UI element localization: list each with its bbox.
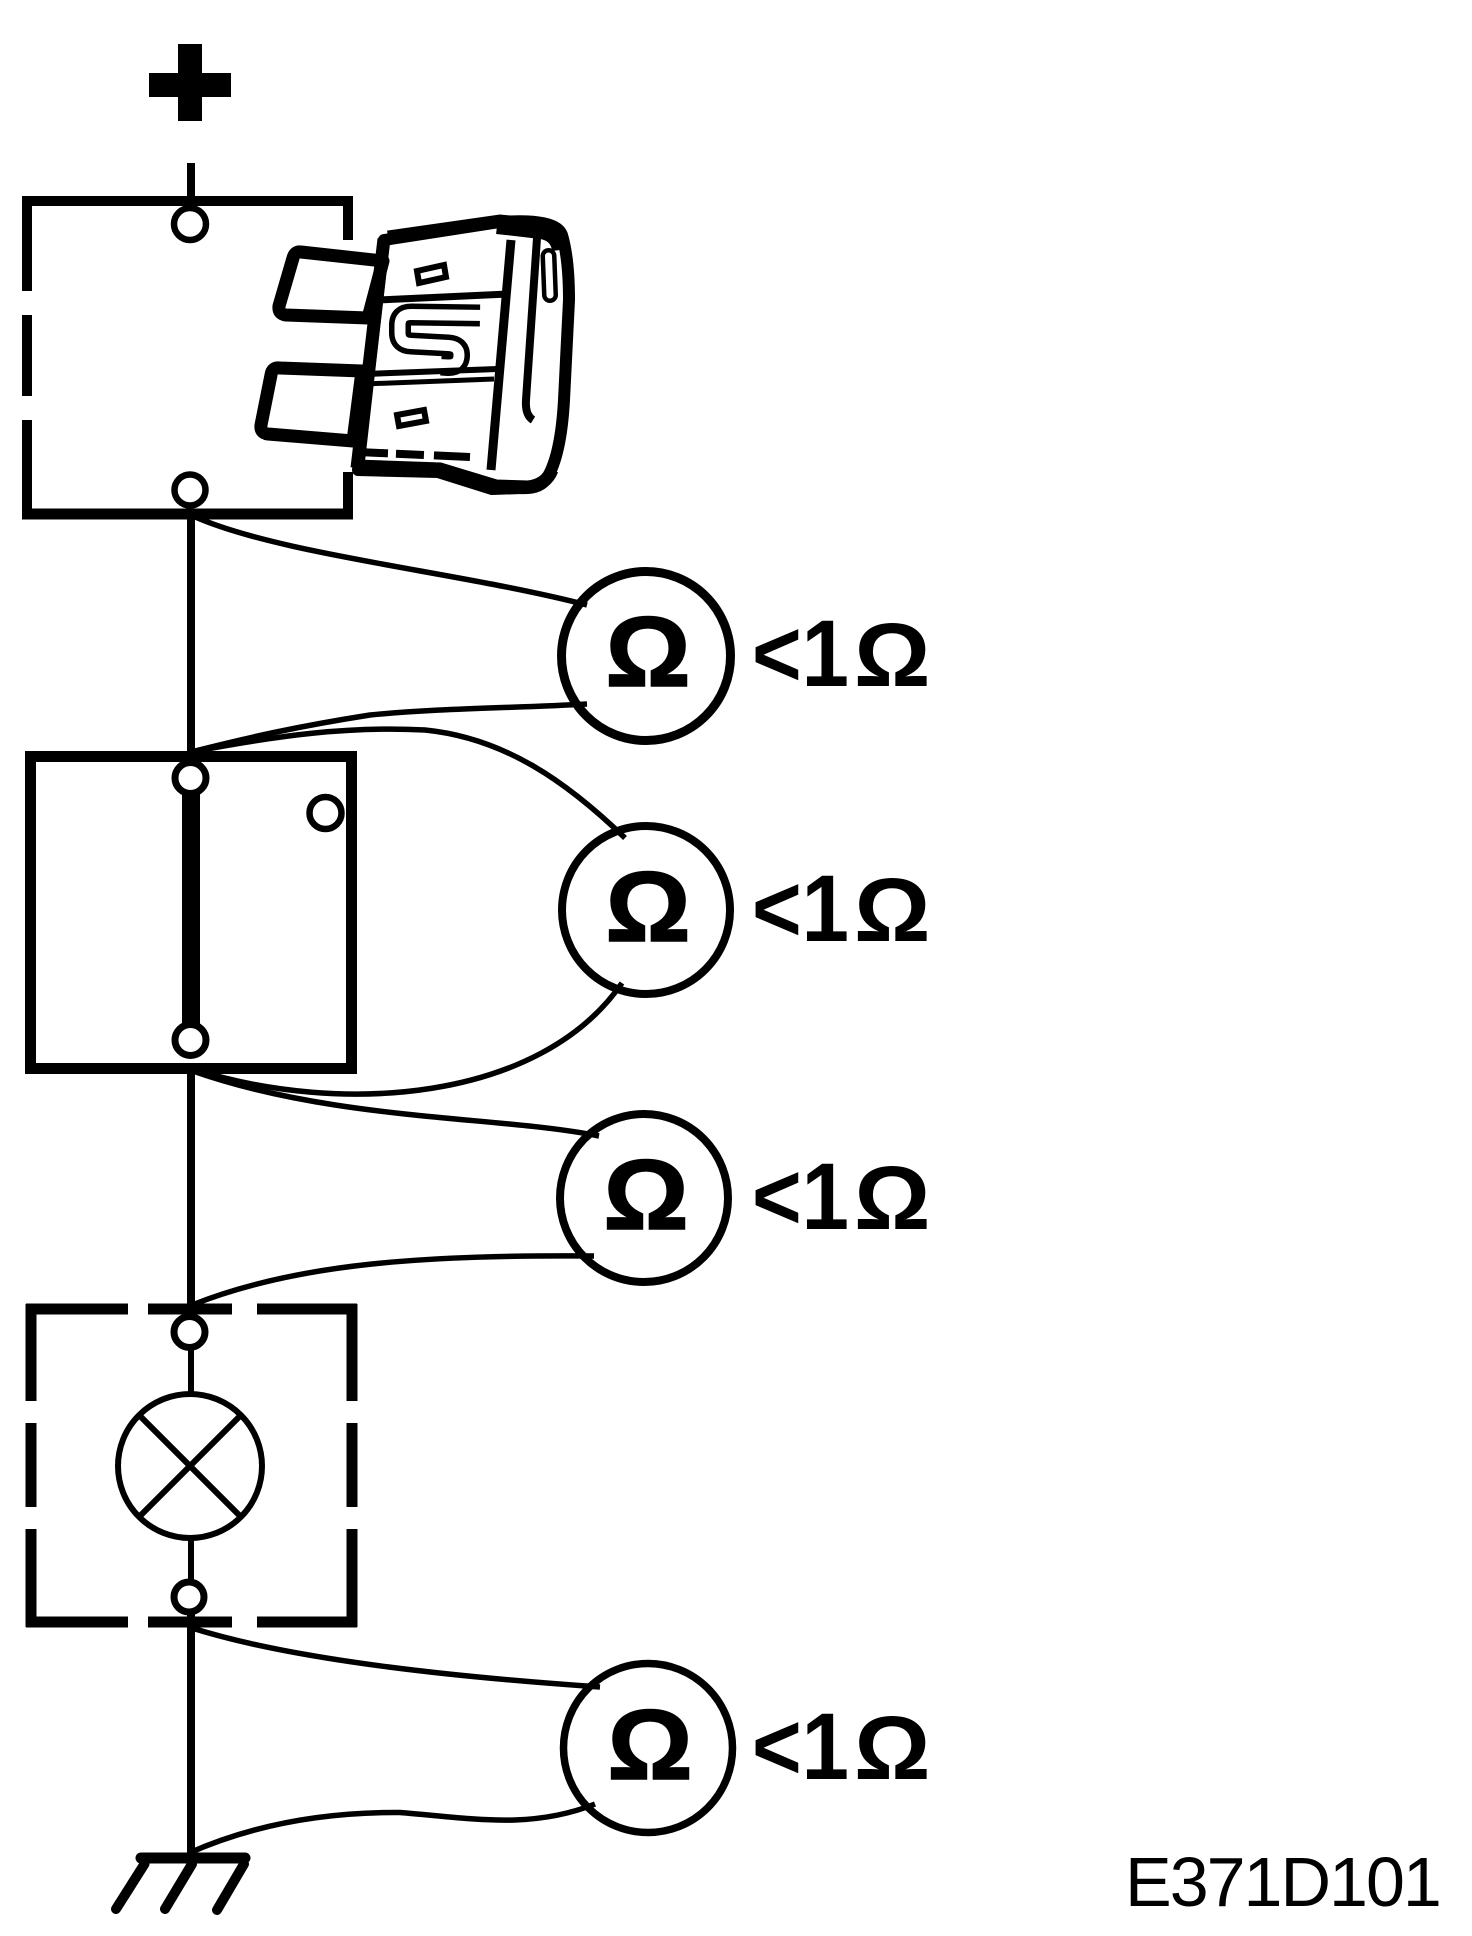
svg-text:Ω: Ω: [605, 851, 690, 962]
ohmmeter 1 dial circle: [562, 572, 731, 741]
relay contact bar: [182, 790, 200, 1030]
fuse body left edge: [357, 239, 384, 468]
svg-text:Ω: Ω: [854, 859, 930, 960]
wire bulb to bottom terminal: [188, 1539, 194, 1587]
wire ohmmeter3 bottom lead to lamp-top: [192, 1256, 594, 1305]
svg-text:Ω: Ω: [605, 596, 690, 707]
fuse blade (upper): [279, 252, 383, 318]
svg-text:<1: <1: [752, 1144, 849, 1250]
svg-text:<1: <1: [752, 856, 849, 962]
ohmmeter 4 dial circle: [564, 1664, 733, 1833]
wire terminal to bulb: [188, 1346, 194, 1398]
lamp terminal (bottom): [174, 1582, 204, 1612]
wire through fuse box to relay: [187, 519, 195, 754]
fuse box (dashed outline): [22, 196, 353, 519]
fuse element (S-shape): [400, 315, 480, 366]
wire relay-top to ohmmeter2 top lead: [191, 729, 625, 838]
battery positive terminal +: [149, 44, 231, 121]
fuse side slot: [549, 256, 551, 295]
relay pin circle: [310, 797, 342, 829]
lamp cross line 1: [139, 1415, 242, 1518]
wire relay-bottom to ohmmeter3 top lead: [193, 1071, 599, 1136]
lamp box (dashed outline): [26, 1304, 357, 1627]
wire ohmmeter4 bottom lead to ground: [189, 1804, 595, 1853]
fuse top cap white notch: [490, 241, 509, 253]
ohmmeter 2 glyph: [605, 851, 690, 962]
fuse divider line 3: [364, 379, 494, 384]
fuse divider line 2: [366, 369, 497, 374]
lamp terminal (top): [174, 1317, 205, 1348]
fuse body outline: [358, 221, 569, 489]
svg-text:<1: <1: [752, 601, 849, 707]
svg-text:Ω: Ω: [854, 1697, 930, 1798]
automotive blade fuse illustration: [261, 221, 569, 489]
fuse amperage stamp (upper): [417, 265, 446, 283]
wire lamp box to ground: [187, 1612, 195, 1858]
fuse amperage stamp (lower): [397, 410, 426, 426]
fuse side face line 2: [526, 238, 537, 420]
wire lamp-bottom to ohmmeter4 top lead: [192, 1628, 600, 1687]
wire fuse-bottom to ohmmeter1 top lead: [193, 516, 587, 605]
svg-text:Ω: Ω: [854, 604, 930, 705]
lamp bulb circle: [118, 1394, 262, 1538]
ohmmeter 3 glyph: [603, 1139, 688, 1250]
fuse white mask over box edge: [336, 240, 362, 472]
lamp cross line 2: [139, 1415, 242, 1518]
svg-text:Ω: Ω: [607, 1689, 692, 1800]
svg-text:<1: <1: [752, 1694, 849, 1800]
svg-text:E371D101: E371D101: [1125, 1843, 1440, 1921]
relay box: [31, 757, 352, 1069]
fuse divider line 1: [379, 294, 508, 300]
fuse top cap band: [388, 221, 548, 237]
fuse bottom face line with dashes: [358, 452, 470, 457]
svg-text:Ω: Ω: [854, 1147, 930, 1248]
fuse terminal (bottom): [175, 475, 206, 506]
ohmmeter 3 dial circle: [560, 1114, 728, 1282]
fuse bottom cap band: [356, 466, 552, 487]
svg-text:Ω: Ω: [603, 1139, 688, 1250]
relay terminal (top): [175, 763, 206, 794]
fuse terminal (top): [174, 208, 206, 240]
ohmmeter 1 glyph: [605, 596, 690, 707]
wire ohmmeter1 bottom lead to relay-top: [191, 704, 587, 752]
ohmmeter 2 dial circle: [562, 826, 730, 994]
ground symbol: [116, 1858, 245, 1910]
relay terminal (bottom): [175, 1025, 206, 1056]
fuse blade (lower): [261, 368, 362, 441]
wire relay-bottom to ohmmeter2 bottom lead: [193, 983, 622, 1094]
ohmmeter 4 glyph: [607, 1689, 692, 1800]
fuse front-right edge: [491, 240, 511, 470]
wire from + to fuse box: [187, 163, 195, 203]
wire relay to lamp box: [187, 1069, 195, 1309]
